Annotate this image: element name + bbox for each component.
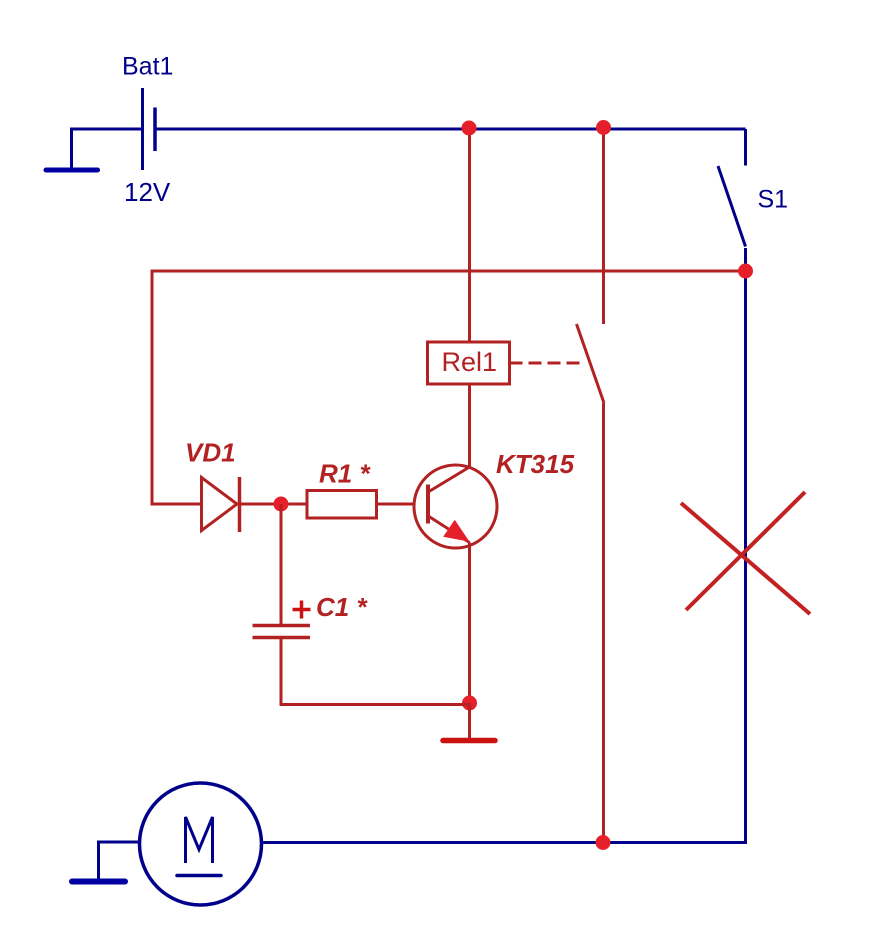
wire red top rail — [152, 270, 744, 273]
capacitor C1 top plate — [253, 624, 311, 628]
ground (motor) — [72, 879, 125, 885]
svg-text:Bat1: Bat1 — [122, 53, 173, 81]
wire resistor to base — [377, 503, 415, 506]
capacitor C1 plus sign — [293, 601, 311, 619]
wire relay to transistor collector — [468, 384, 471, 467]
wire red middle rail (relay contact upper) — [602, 128, 605, 324]
node junction dot (bottom rail / contact) — [596, 835, 611, 850]
capacitor C1 bottom plate — [253, 636, 311, 640]
ground (battery) — [46, 168, 98, 173]
wire red left vertical — [151, 270, 154, 506]
battery Bat1 long plate (+) — [141, 88, 144, 170]
svg-text:Rel1: Rel1 — [442, 347, 498, 377]
transistor Q1 base bar — [426, 485, 430, 524]
motor M1 circle — [140, 783, 262, 905]
motor M letter — [186, 817, 213, 863]
no-connection cross line 1 — [681, 503, 810, 614]
wire battery left to ground — [72, 129, 143, 168]
transistor Q1 emitter arrow — [444, 521, 469, 541]
transistor Q1 circle — [414, 465, 497, 548]
wire emitter junction to ground — [468, 703, 471, 738]
switch S1 upper stub — [744, 129, 747, 166]
node junction dot (diode/R1/C1) — [274, 497, 289, 512]
wire motor left to ground — [99, 842, 140, 879]
node junction dot (top rail / contact) — [596, 120, 611, 135]
diode VD1 cathode bar — [238, 477, 242, 532]
relay Rel1 box — [428, 342, 510, 384]
relay actuation dashed link — [510, 362, 585, 365]
wire right rail (S1 down to bottom corner) — [744, 248, 747, 843]
transistor Q1 collector stroke — [429, 467, 470, 492]
switch S1 blade — [718, 166, 746, 247]
svg-text:VD1: VD1 — [185, 438, 236, 468]
node junction dot (top rail / collector) — [462, 121, 477, 136]
wire bottom rail (motor to right corner) — [263, 841, 748, 844]
wire capacitor down and across to emitter junction — [281, 639, 470, 705]
node junction dot (red rail / S1) — [738, 264, 753, 279]
diode VD1 triangle — [202, 478, 238, 531]
wire collector rail (top dot to relay) — [468, 128, 471, 342]
wire to diode anode — [152, 503, 202, 506]
motor M underline — [177, 874, 221, 878]
battery Bat1 short plate (-) — [153, 108, 157, 152]
ground (red) — [443, 738, 495, 744]
svg-text:12V: 12V — [124, 177, 171, 207]
wire red middle rail (relay contact lower) — [602, 403, 605, 843]
resistor R1 body — [307, 491, 377, 519]
node junction dot (emitter / C1 / ground) — [462, 696, 477, 711]
svg-text:R1 *: R1 * — [319, 459, 371, 489]
wire top rail (battery + to S1) — [155, 128, 746, 131]
transistor Q1 emitter stroke — [429, 517, 470, 543]
svg-text:KT315: KT315 — [496, 449, 575, 479]
relay contact blade — [577, 324, 605, 403]
no-connection cross line 2 — [686, 492, 805, 610]
svg-text:C1 *: C1 * — [316, 592, 368, 622]
svg-text:S1: S1 — [758, 186, 789, 214]
wire diode to resistor — [240, 503, 308, 506]
wire emitter down — [468, 543, 471, 704]
wire junction to capacitor — [280, 504, 283, 624]
